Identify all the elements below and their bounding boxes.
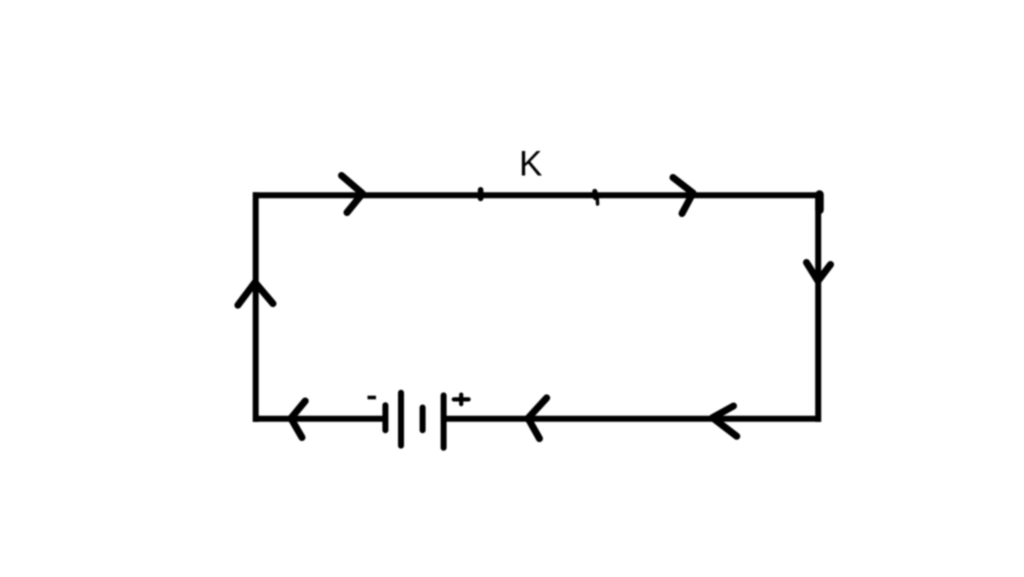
svg-text:K: K — [519, 145, 542, 184]
switch K terminal tick 1 — [478, 190, 484, 199]
arrow bottom-left (current direction left) — [291, 401, 305, 438]
battery B2 positive plate (tall, right) — [441, 395, 447, 447]
battery B1 positive plate (tall) — [398, 393, 404, 446]
arrow left side (current direction up) — [238, 282, 273, 305]
battery plus label — [454, 397, 469, 401]
battery minus label — [368, 396, 377, 400]
arrow right side (current direction down) — [807, 263, 831, 282]
wire right — [815, 195, 821, 422]
battery B2 negative plate (short, middle) — [420, 408, 426, 431]
switch K terminal tick 2 — [592, 192, 598, 198]
node top-right corner blob — [815, 195, 824, 211]
wire top — [253, 192, 822, 198]
wire bottom-left segment — [253, 416, 385, 422]
battery B1 negative plate (short, left) — [382, 405, 388, 430]
arrow top-right (current direction right) — [673, 178, 693, 214]
arrow bottom-right (current direction left) — [713, 406, 737, 436]
wire bottom-right segment — [444, 416, 821, 422]
wire left — [253, 192, 259, 422]
arrow top-left (current direction right) — [342, 176, 363, 213]
arrow bottom-middle (current direction left) — [528, 398, 547, 439]
